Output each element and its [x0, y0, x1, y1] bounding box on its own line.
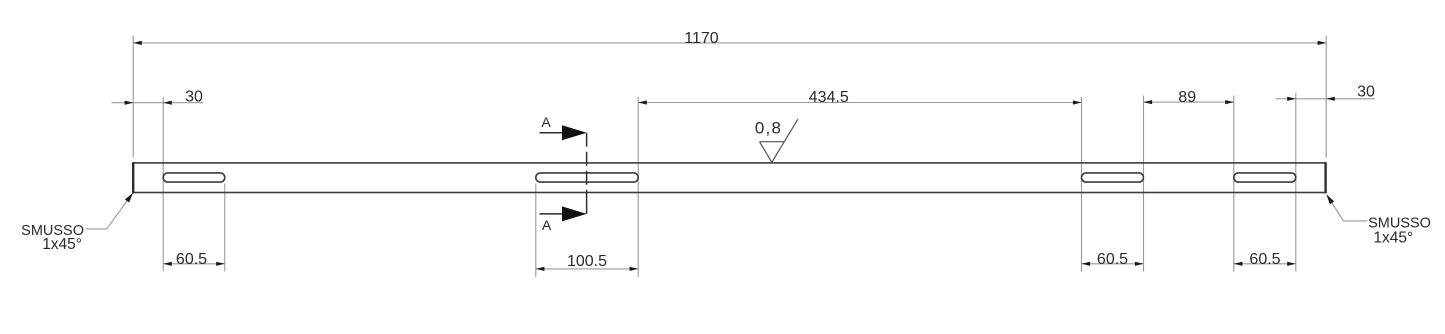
- svg-text:60.5: 60.5: [176, 251, 207, 268]
- dimension 30 right: [1275, 84, 1375, 101]
- svg-text:30: 30: [1357, 84, 1375, 101]
- svg-text:60.5: 60.5: [1249, 251, 1280, 268]
- extension line slot1-right: [224, 184, 226, 272]
- dimension 60.5 slot1: [163, 251, 225, 268]
- dimension 1170: [133, 30, 1326, 47]
- section line A-A dashed: [586, 133, 588, 193]
- surface finish symbol: [760, 119, 798, 162]
- extension line slot3-right: [1143, 96, 1145, 272]
- svg-text:100.5: 100.5: [567, 253, 607, 270]
- section line A-A solid lower: [586, 193, 588, 214]
- svg-text:60.5: 60.5: [1097, 251, 1128, 268]
- leader chamfer left: [86, 193, 133, 229]
- svg-text:A: A: [541, 114, 551, 130]
- extension line slot2-left: [535, 184, 537, 278]
- extension line bar-right: [1325, 36, 1327, 158]
- slot 2: [536, 173, 638, 182]
- bar left end edge: [132, 162, 134, 193]
- dimension 60.5 slot4: [1234, 251, 1296, 268]
- section marker bottom arrow: [540, 206, 587, 221]
- svg-text:30: 30: [185, 88, 203, 105]
- svg-text:1x45°: 1x45°: [1373, 229, 1413, 246]
- svg-text:89: 89: [1178, 89, 1196, 106]
- extension line slot2-right: [637, 97, 639, 277]
- svg-text:1170: 1170: [684, 30, 719, 47]
- dimension 434.5: [638, 89, 1081, 106]
- dimension 100.5 slot2: [536, 253, 638, 271]
- extension line slot4-right: [1295, 93, 1297, 272]
- extension line slot3-left: [1081, 97, 1083, 272]
- slot 1: [163, 173, 225, 182]
- dimension 89: [1144, 89, 1234, 106]
- bar outline: [133, 163, 1325, 193]
- dimension 30 left: [112, 88, 204, 105]
- extension line bar-left: [132, 36, 134, 158]
- extension line slot4-left: [1233, 96, 1235, 272]
- slot 4: [1234, 173, 1296, 182]
- section marker top arrow: [540, 125, 587, 140]
- leader chamfer right: [1326, 194, 1367, 221]
- svg-text:434.5: 434.5: [809, 89, 849, 106]
- svg-text:0,8: 0,8: [755, 119, 782, 138]
- svg-text:1x45°: 1x45°: [42, 236, 82, 253]
- bar right end edge: [1324, 162, 1326, 193]
- svg-text:A: A: [542, 217, 552, 233]
- dimension 60.5 slot3: [1082, 251, 1144, 268]
- slot 3: [1082, 173, 1144, 182]
- extension line slot1-left: [162, 97, 164, 272]
